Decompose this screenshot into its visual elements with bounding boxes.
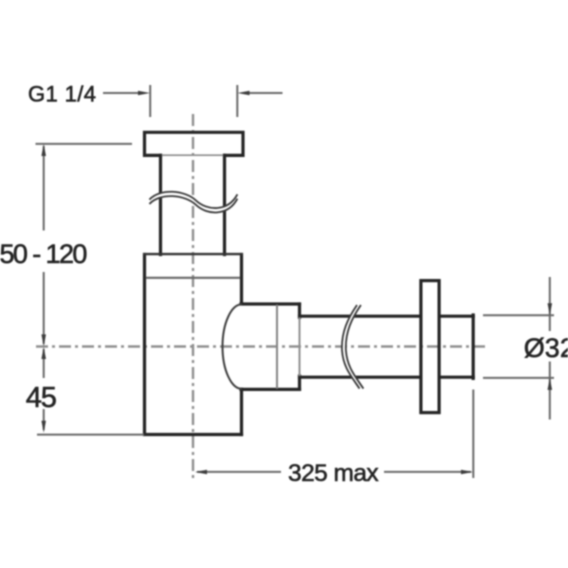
svg-text:Ø32: Ø32 — [524, 333, 568, 363]
svg-text:45: 45 — [26, 382, 56, 414]
svg-text:325 max: 325 max — [288, 460, 378, 487]
svg-text:50 - 120: 50 - 120 — [0, 239, 86, 269]
svg-text:G1 1/4: G1 1/4 — [28, 81, 96, 106]
